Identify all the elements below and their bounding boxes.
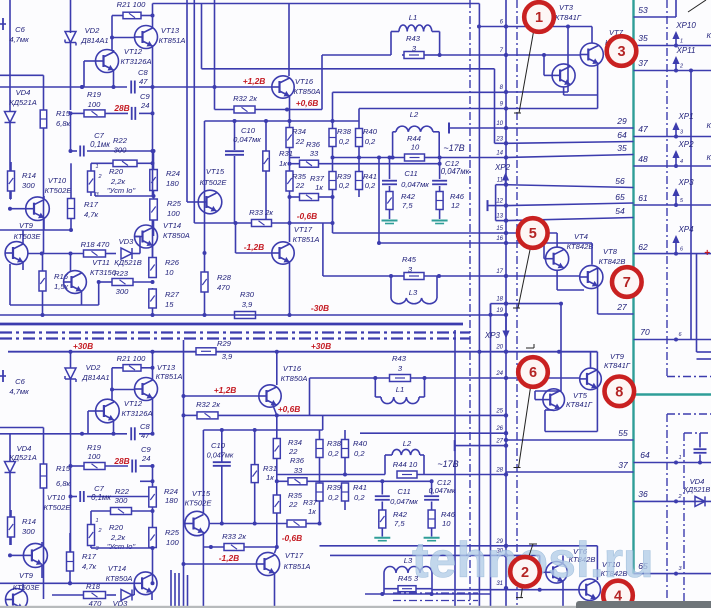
resistor R30 [235, 312, 256, 319]
wire y55 to pin7 [440, 54, 506, 56]
svg-text:R27: R27 [165, 290, 180, 299]
svg-text:100: 100 [88, 100, 101, 109]
transistor VT15 [198, 190, 222, 214]
transistor VT12 bottom [96, 399, 120, 423]
resistor R40 bottom [342, 440, 349, 458]
capacitor C10 bottom [221, 430, 223, 462]
svg-text:VD2: VD2 [85, 26, 101, 35]
resistor R18 [84, 250, 106, 257]
wire R45 L3 row y276 [360, 275, 391, 277]
svg-text:14: 14 [496, 151, 503, 157]
svg-text:0,047мк: 0,047мк [401, 180, 429, 189]
svg-text:R31: R31 [263, 464, 277, 473]
resistor R45 bottom [365, 593, 491, 595]
svg-text:33: 33 [310, 149, 319, 158]
svg-text:R39: R39 [337, 172, 352, 181]
svg-text:КТ842В: КТ842В [567, 242, 594, 251]
svg-text:R14: R14 [22, 171, 36, 180]
svg-text:КТ841Г: КТ841Г [555, 13, 582, 22]
vertical x309 output feed [309, 378, 311, 415]
svg-text:VT15: VT15 [206, 167, 225, 176]
pointer from circle 6 [519, 384, 532, 468]
svg-text:0,2: 0,2 [328, 493, 339, 502]
bus vertical x479 [478, 4, 480, 608]
svg-text:R25: R25 [167, 199, 182, 208]
pointer from circle 2 down [521, 583, 523, 598]
wire 53 row [634, 16, 677, 18]
svg-text:0,047мк: 0,047мк [207, 451, 234, 460]
svg-text:R43: R43 [406, 34, 421, 43]
inductor L1 [399, 25, 432, 32]
vertical x201 [201, 4, 203, 69]
svg-text:+30В: +30В [73, 341, 93, 351]
wire 37 to teal bottom [506, 471, 634, 473]
svg-text:R42: R42 [401, 192, 416, 201]
svg-text:47: 47 [141, 431, 150, 440]
svg-text:VT13: VT13 [161, 26, 180, 35]
wire VT6 collector bottom [562, 555, 564, 563]
svg-text:1к: 1к [266, 473, 274, 482]
wire y583 base row bottom [0, 582, 134, 584]
svg-text:15: 15 [496, 226, 503, 232]
svg-text:L1: L1 [396, 385, 404, 394]
svg-text:+1,2В: +1,2В [214, 385, 237, 395]
svg-text:1: 1 [680, 39, 683, 45]
svg-text:7,5: 7,5 [402, 201, 413, 210]
svg-text:R36: R36 [306, 140, 321, 149]
svg-text:С8: С8 [140, 422, 150, 431]
svg-text:24: 24 [140, 101, 149, 110]
resistor R25 [150, 199, 158, 220]
svg-text:R45: R45 [402, 255, 417, 264]
svg-text:~17В: ~17В [443, 143, 464, 153]
capacitor C8 [130, 81, 132, 94]
svg-text:180: 180 [166, 179, 179, 188]
svg-text:12: 12 [451, 201, 460, 210]
svg-text:1к: 1к [308, 507, 316, 516]
svg-text:65: 65 [615, 192, 625, 202]
transistor VT10 bottom [23, 543, 47, 567]
svg-text:R20: R20 [109, 167, 124, 176]
resistor R31 [263, 151, 270, 171]
resistor R34 bottom [273, 439, 280, 459]
svg-text:36: 36 [638, 489, 648, 499]
inductor L3 [390, 276, 392, 298]
svg-text:48: 48 [638, 154, 648, 164]
svg-text:R40: R40 [353, 439, 368, 448]
wire y430 bottom [203, 429, 322, 431]
svg-text:ХР3: ХР3 [484, 331, 501, 340]
svg-text:R17: R17 [84, 200, 99, 209]
svg-text:КТ851А: КТ851А [156, 372, 183, 381]
svg-text:35: 35 [617, 143, 627, 153]
diode VD4 right [695, 496, 705, 506]
svg-text:КТ851А: КТ851А [159, 36, 186, 45]
svg-text:VT10: VT10 [47, 493, 66, 502]
svg-text:VT16: VT16 [283, 364, 302, 373]
wire VT3 base [543, 55, 545, 75]
separator solid line [0, 323, 463, 326]
resistor R39 bottom [316, 483, 323, 501]
svg-text:300: 300 [114, 146, 127, 155]
svg-text:R34: R34 [292, 127, 306, 136]
wire y75 left [0, 74, 44, 76]
svg-text:R24: R24 [166, 169, 180, 178]
svg-text:15: 15 [165, 300, 174, 309]
capacitor C6 bottom stub [0, 375, 6, 377]
svg-text:37: 37 [618, 460, 628, 470]
potentiometer R20 [88, 171, 95, 192]
transistor VT9 bottom [6, 589, 28, 608]
feedback vertical x187 [186, 0, 188, 202]
svg-text:R32 2к: R32 2к [233, 94, 257, 103]
wire y92 pin8 [333, 91, 507, 93]
svg-text:7: 7 [623, 275, 631, 291]
svg-text:К: К [707, 153, 711, 162]
capacitor right bottom [699, 433, 701, 448]
svg-text:R43: R43 [392, 354, 407, 363]
resistor R36 bottom [288, 478, 307, 485]
wire 35 row XP10 [634, 45, 711, 47]
svg-text:3: 3 [617, 44, 625, 60]
connector XP3 bottom column [505, 316, 507, 333]
resistor R14 [8, 171, 15, 191]
wire 48 row XP2 [634, 165, 711, 167]
svg-text:R38: R38 [327, 439, 342, 448]
svg-text:С10: С10 [211, 441, 226, 450]
grey bottom bar [576, 601, 711, 608]
svg-text:-1,2В: -1,2В [219, 553, 239, 563]
svg-text:КТ850А: КТ850А [294, 87, 321, 96]
resistor R31 bottom [251, 465, 258, 483]
transistor VT15 bottom [185, 511, 209, 535]
wire VT11 emitter row [10, 304, 99, 306]
svg-text:R44 10: R44 10 [393, 460, 418, 469]
vertical x592 VT7 collector [591, 27, 593, 44]
resistor R29 [196, 348, 216, 355]
svg-text:R41: R41 [363, 172, 377, 181]
transistor VT8 [580, 265, 603, 288]
wire y87 VT16 base [153, 86, 272, 88]
svg-text:ХР1: ХР1 [677, 112, 693, 121]
bracket VT6 base bottom [539, 555, 541, 572]
svg-text:300: 300 [22, 527, 35, 536]
svg-text:27: 27 [495, 439, 503, 445]
wire pin10 to teal 29 [506, 127, 634, 129]
svg-text:ХР2: ХР2 [677, 140, 694, 149]
svg-text:0,2: 0,2 [328, 449, 339, 458]
capacitor C10 [234, 121, 236, 150]
svg-text:64: 64 [640, 450, 650, 460]
pins 20-31 dots and numbers [504, 350, 508, 354]
pointer from circle 2 up [529, 544, 533, 556]
wire y143.3 pin23 [495, 142, 507, 144]
resistor R33 bottom [224, 544, 244, 551]
resistor R22 [113, 160, 137, 167]
collector VT9 right [590, 352, 592, 368]
vertical x561 long [560, 304, 562, 391]
wire output node x322 [321, 55, 323, 110]
svg-text:R46: R46 [450, 192, 465, 201]
svg-text:ХР2: ХР2 [494, 163, 511, 172]
svg-text:"Уст Iо": "Уст Iо" [107, 186, 136, 195]
svg-text:180: 180 [165, 496, 178, 505]
svg-text:18: 18 [496, 297, 503, 303]
svg-text:VT9: VT9 [19, 571, 34, 580]
transistor VT6 [546, 562, 568, 584]
resistor R15 bottom [40, 464, 47, 488]
svg-text:КТ502Е: КТ502Е [44, 503, 72, 512]
resistor R33 [252, 220, 272, 227]
wire pin24 right VT9 base [506, 377, 580, 379]
resistor R44 bottom [397, 471, 417, 478]
resistor R17 bottom [67, 552, 74, 571]
svg-text:6,8к: 6,8к [56, 119, 71, 128]
svg-text:22: 22 [295, 137, 305, 146]
resistor R41 [356, 172, 363, 190]
wire pin7 right VT7 base [506, 54, 580, 56]
transistor VT17 [272, 242, 294, 264]
svg-text:VT3: VT3 [559, 3, 574, 12]
svg-text:55: 55 [618, 428, 628, 438]
svg-text:L2: L2 [410, 110, 419, 119]
svg-text:1: 1 [95, 518, 98, 524]
capacitor C9 bottom [131, 460, 133, 473]
svg-text:0,2: 0,2 [339, 137, 350, 146]
transistor VT10 right [579, 579, 601, 601]
svg-text:13: 13 [496, 214, 503, 220]
connector XP2 top [505, 178, 507, 185]
capacitor C12 bottom chain [431, 481, 433, 494]
svg-text:~17В: ~17В [437, 459, 458, 469]
svg-text:10: 10 [165, 268, 174, 277]
svg-text:10: 10 [442, 519, 451, 528]
resistor R28 [201, 272, 208, 292]
connector XP10 [675, 36, 677, 46]
wire y433.8 long [0, 433, 127, 435]
svg-text:+1,2В: +1,2В [243, 76, 266, 86]
pointer tick near circle 6 [526, 347, 534, 349]
svg-text:R34: R34 [288, 438, 302, 447]
svg-text:С6: С6 [15, 25, 25, 34]
svg-text:Д814А1: Д814А1 [81, 373, 109, 382]
wire y184.7 pin11 [496, 184, 506, 186]
svg-text:R30: R30 [240, 290, 255, 299]
wire 27 to teal [598, 313, 634, 315]
svg-text:VT11: VT11 [92, 258, 110, 267]
dash-dot bottom enclosure [393, 592, 478, 594]
svg-text:КТ841Г: КТ841Г [566, 400, 593, 409]
callout circle 8 [605, 377, 635, 407]
wire VT4 base [543, 243, 545, 259]
wire y157.5 output row [290, 157, 301, 159]
svg-text:КТ502Е: КТ502Е [185, 499, 213, 508]
svg-text:R15: R15 [56, 464, 71, 473]
wire pin12 to teal 65 [506, 203, 634, 206]
feedback vertical x194 [193, 0, 195, 223]
resistor R24 [150, 170, 158, 191]
wire 37 row XP11 [634, 70, 711, 72]
wire y55 output to L1 [322, 54, 391, 56]
callout circle 3 [607, 36, 637, 66]
svg-text:R22: R22 [115, 487, 130, 496]
svg-text:ХР11: ХР11 [676, 46, 696, 55]
connector XP3 right [675, 193, 677, 205]
resistor R14 bottom [8, 517, 15, 537]
svg-text:R29: R29 [217, 339, 232, 348]
svg-text:Д814А1: Д814А1 [80, 36, 108, 45]
resistor R35 bottom [273, 495, 280, 513]
svg-text:0,047мк: 0,047мк [390, 497, 418, 506]
inductor L2 bottom [384, 455, 386, 475]
svg-text:R40: R40 [363, 127, 378, 136]
connector XP11 [675, 61, 677, 71]
inductor L3 bottom [383, 573, 385, 594]
stub verticals bottom left [170, 570, 172, 608]
wire y253 base row [28, 253, 84, 255]
svg-text:1к: 1к [279, 159, 287, 168]
svg-text:VT12: VT12 [124, 47, 143, 56]
svg-text:4,7мк: 4,7мк [9, 387, 29, 396]
svg-text:R18: R18 [86, 582, 101, 591]
svg-text:4,7к: 4,7к [84, 210, 99, 219]
wire y474.5 output row bottom [277, 474, 385, 476]
transistor VT14 bottom [134, 572, 157, 595]
svg-text:33: 33 [294, 466, 303, 475]
transistor VT16 bottom [259, 385, 281, 407]
wire y545.8 pin29 long [320, 545, 598, 547]
svg-text:R33 2к: R33 2к [249, 208, 273, 217]
wire y68.8 [202, 68, 495, 70]
wire pin11 to teal 56 [506, 185, 634, 188]
svg-text:С9: С9 [141, 445, 151, 454]
svg-text:0,2: 0,2 [339, 181, 350, 190]
svg-text:КТ841Г: КТ841Г [604, 361, 631, 370]
wire 65 row [634, 573, 711, 575]
svg-text:R14: R14 [22, 517, 36, 526]
wire top rail y3.5 [153, 3, 480, 5]
svg-text:28В: 28В [113, 456, 129, 466]
svg-text:КД521В: КД521В [114, 258, 142, 267]
resistor R38 [329, 129, 336, 147]
resistor R35 [286, 171, 293, 191]
wire vertical bus x70 VD2 column [70, 0, 72, 33]
vertical x289 VT16 collector [288, 4, 290, 77]
wire y548 R20-R25 bottom [95, 547, 153, 549]
svg-text:КТ850А: КТ850А [106, 574, 133, 583]
svg-text:R21 100: R21 100 [117, 354, 146, 363]
svg-text:R39: R39 [327, 483, 342, 492]
separator dash-dot line 2 [0, 337, 470, 339]
transistor VT7 [580, 43, 603, 66]
wire y157.5 cont [333, 157, 405, 159]
svg-text:КТ3126А: КТ3126А [121, 409, 152, 418]
wire base VT16 bottom [184, 395, 260, 397]
bus vertical x491 lower [490, 304, 492, 608]
wire y113 R19 row [71, 112, 85, 114]
svg-text:-30В: -30В [311, 303, 329, 313]
svg-text:23: 23 [495, 136, 503, 142]
svg-text:10: 10 [411, 143, 420, 152]
resistor R15 [40, 110, 47, 128]
svg-text:КТ851А: КТ851А [284, 562, 311, 571]
svg-text:2: 2 [679, 64, 683, 70]
svg-text:КД521В: КД521В [684, 485, 711, 494]
svg-text:R23: R23 [114, 269, 129, 278]
connector XP4 right [675, 240, 677, 254]
svg-text:VT12: VT12 [124, 399, 143, 408]
callout circle 6 [518, 357, 548, 387]
svg-text:R24: R24 [164, 487, 178, 496]
wire y87 long [0, 86, 127, 88]
wire pin16 right [506, 242, 592, 244]
svg-text:4,7мк: 4,7мк [9, 35, 29, 44]
wire x379 vertical [378, 158, 380, 244]
wire y151 C7 R22 row [71, 150, 78, 152]
svg-text:R17: R17 [82, 552, 97, 561]
svg-text:1: 1 [678, 455, 681, 461]
transistor VT5 [543, 389, 565, 411]
vertical x696 right [696, 254, 698, 352]
wire y233 pin15 [332, 197, 334, 233]
transistor VT9 [5, 242, 28, 265]
svg-text:22: 22 [288, 500, 298, 509]
transistor VT9 right [580, 368, 602, 390]
svg-text:4,7к: 4,7к [82, 562, 97, 571]
resistor R22 bottom [111, 508, 132, 515]
wire pin13 to teal 54 [506, 218, 634, 221]
svg-text:2: 2 [97, 174, 101, 180]
wire y459.8 R19 row bottom [71, 465, 85, 467]
svg-text:4: 4 [680, 159, 683, 165]
resistor R34 [286, 128, 293, 148]
callout circle 2 [510, 557, 540, 587]
wire pin18 right [506, 303, 561, 305]
svg-text:47: 47 [638, 124, 648, 134]
resistor R27 [149, 289, 157, 308]
svg-text:53: 53 [638, 5, 648, 15]
svg-text:R19: R19 [87, 90, 102, 99]
svg-text:"Уст Iо": "Уст Iо" [107, 542, 136, 551]
inductor L2 [392, 132, 394, 158]
svg-text:КТ851А: КТ851А [293, 235, 320, 244]
wire R33 row y223 [194, 222, 252, 224]
svg-text:0,047мк: 0,047мк [429, 486, 456, 495]
svg-text:5: 5 [529, 226, 537, 242]
pointer from circle 5 [518, 245, 531, 308]
svg-text:62: 62 [638, 242, 648, 252]
resistor R19 bottom [84, 463, 105, 470]
wire y223 to right [322, 223, 324, 276]
svg-text:КТ850А: КТ850А [281, 374, 308, 383]
svg-text:ХР10: ХР10 [675, 21, 696, 30]
svg-text:54: 54 [615, 206, 625, 216]
svg-text:470: 470 [217, 283, 230, 292]
svg-text:20: 20 [495, 345, 503, 351]
svg-text:R20: R20 [109, 523, 124, 532]
svg-text:R21 100: R21 100 [117, 0, 146, 9]
rail +30V [8, 351, 597, 353]
dash-dot vertical x470 [469, 0, 471, 608]
feedback vertical x214 to VT16 base [214, 0, 216, 87]
svg-text:22: 22 [288, 447, 298, 456]
wire x597 bottom [596, 546, 598, 580]
capacitor C7 [79, 146, 81, 157]
svg-text:25: 25 [495, 408, 503, 414]
svg-text:R37: R37 [310, 174, 325, 183]
dash-dot enclosure right bottom outer [666, 414, 668, 608]
svg-text:R32 2к: R32 2к [196, 400, 220, 409]
